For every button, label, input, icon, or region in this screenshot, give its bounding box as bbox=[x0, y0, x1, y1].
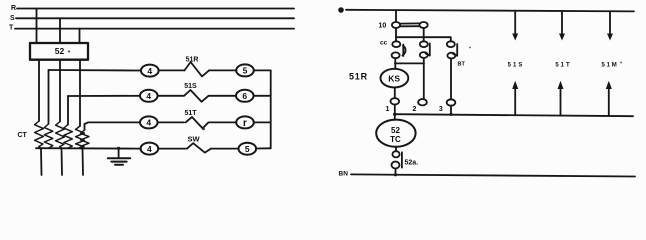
wire row4 to right bus bbox=[256, 147, 271, 149]
svg-text:1: 1 bbox=[386, 106, 390, 113]
terminal 2 circle bbox=[418, 99, 427, 105]
wire phase S below breaker bbox=[59, 60, 61, 122]
mid bus bbox=[395, 114, 633, 116]
svg-text:R: R bbox=[11, 5, 16, 12]
CT zigzag phase T secondary bbox=[81, 130, 90, 148]
wire row3 right of relay bbox=[209, 121, 237, 123]
wire row1 right of relay bbox=[209, 69, 236, 71]
svg-text:51S: 51S bbox=[184, 83, 197, 90]
row 3: wire tap to meter bbox=[85, 122, 141, 124]
junction dot terminal 3 bbox=[449, 113, 452, 116]
ground bar 3 bbox=[115, 164, 123, 166]
svg-text:r: r bbox=[243, 118, 247, 129]
contact CC top terminal bbox=[392, 41, 400, 47]
svg-text:4: 4 bbox=[147, 144, 152, 154]
wire row2 to right bus bbox=[254, 95, 271, 97]
contact CC blade bbox=[403, 45, 406, 57]
CT zigzag phase R secondary bbox=[44, 124, 53, 148]
svg-text:S: S bbox=[10, 15, 15, 22]
wire CT S secondary riser bbox=[67, 96, 69, 125]
feeder 51T up arrowhead bbox=[558, 81, 564, 89]
wire T drop to breaker bbox=[79, 29, 81, 43]
feeder 51M up arrowhead bbox=[606, 81, 612, 89]
terminal 1 circle bbox=[391, 98, 400, 104]
svg-text:BN: BN bbox=[339, 171, 349, 178]
wire common / row4 line bbox=[36, 147, 141, 149]
svg-text:cc: cc bbox=[380, 40, 388, 47]
wire row2 right of relay bbox=[209, 95, 237, 97]
contact 10 right terminal bbox=[420, 22, 428, 28]
CT zigzag phase S secondary bbox=[64, 125, 73, 149]
wire below 10 right bbox=[423, 28, 425, 41]
wire CT T secondary riser bbox=[84, 124, 86, 130]
svg-text:51R: 51R bbox=[186, 57, 199, 64]
wire phase T tail bbox=[82, 148, 85, 175]
svg-text:4: 4 bbox=[146, 91, 151, 101]
terminal circle 5 (row 1) bbox=[236, 64, 254, 76]
wire CT R secondary riser bbox=[48, 70, 50, 124]
svg-text:51S: 51S bbox=[508, 62, 525, 68]
wire CC to KS bbox=[394, 58, 396, 69]
right tie bus vertical bbox=[270, 70, 272, 148]
relay 51N element zigzag bbox=[187, 143, 211, 152]
wire terminal 1 to coil bbox=[394, 105, 396, 120]
wire row2 left of relay bbox=[158, 95, 184, 97]
terminal circle 5 (row 4) bbox=[239, 143, 257, 155]
contact 3 bottom terminal bbox=[447, 53, 455, 59]
contact 10 bridge line upper bbox=[400, 22, 419, 24]
CT zigzag phase T primary bbox=[76, 126, 85, 148]
svg-text:51M: 51M bbox=[601, 62, 618, 68]
wire 52a to BN bbox=[395, 169, 397, 175]
feeder 51S up arrowhead bbox=[512, 81, 518, 89]
svg-text:KS: KS bbox=[388, 73, 400, 83]
wire phase T to common bbox=[80, 147, 81, 150]
svg-text:5: 5 bbox=[245, 144, 250, 154]
wire R drop to breaker bbox=[36, 9, 38, 44]
ink speck after 51M bbox=[620, 62, 622, 64]
wire KS to terminal 1 bbox=[394, 87, 396, 98]
terminal circle r (row 3) bbox=[236, 116, 254, 128]
ground bar 1 bbox=[108, 157, 130, 159]
svg-text:6: 6 bbox=[242, 91, 247, 101]
relay KS circle bbox=[381, 69, 409, 88]
wire branch2 down bbox=[423, 58, 425, 99]
contact 10 left terminal bbox=[392, 22, 400, 28]
row 2: wire tap to meter bbox=[68, 95, 140, 97]
svg-text:SW: SW bbox=[187, 134, 200, 143]
contact 10 bridge line lower bbox=[400, 25, 419, 27]
contact 2 blade bbox=[426, 43, 430, 55]
svg-text:CT: CT bbox=[18, 132, 28, 139]
meter circle 4 (row 3) bbox=[140, 116, 158, 128]
wire terminal 3 to mid bus bbox=[450, 106, 452, 115]
feeder 51T drop arrowhead bbox=[559, 34, 565, 41]
wire phase T below breaker bbox=[79, 60, 81, 126]
coil 52/TC circle bbox=[376, 120, 415, 147]
bus BP bbox=[346, 10, 634, 12]
CT zigzag phase R primary bbox=[35, 121, 44, 147]
feeder 51M drop wire bbox=[609, 11, 611, 34]
feeder 51S up wire bbox=[514, 88, 516, 115]
wire phase R tail bbox=[40, 148, 43, 175]
ground junction dot bbox=[117, 147, 120, 150]
CT zigzag phase S primary bbox=[56, 122, 65, 147]
wire coil to 52a bbox=[395, 147, 397, 151]
svg-text:52: 52 bbox=[391, 126, 400, 135]
feeder 51M up wire bbox=[608, 88, 610, 116]
wire row3 left of relay bbox=[158, 121, 184, 123]
feeder 51S drop arrowhead bbox=[512, 34, 518, 41]
svg-text:51R: 51R bbox=[349, 71, 368, 81]
junction dot coil leg on BN bbox=[394, 173, 397, 176]
bus R bbox=[17, 8, 294, 10]
relay 51S element zigzag bbox=[184, 90, 209, 102]
svg-text:52: 52 bbox=[55, 46, 65, 56]
breaker 52 box bbox=[30, 43, 88, 60]
wire row1 to right bus bbox=[254, 69, 271, 71]
wire row1 left of relay bbox=[159, 69, 185, 71]
svg-text:51T: 51T bbox=[184, 110, 197, 117]
contact 2 top terminal bbox=[420, 41, 428, 47]
ink speck right of 52 box bbox=[68, 51, 70, 53]
wire S drop to breaker bbox=[59, 18, 61, 43]
svg-text:2: 2 bbox=[413, 106, 417, 113]
wire tie to branch 3 bbox=[396, 37, 451, 41]
wire main drop from BP bbox=[395, 10, 397, 22]
feeder 51S drop wire bbox=[514, 11, 516, 34]
relay 51R element zigzag bbox=[185, 62, 210, 76]
contact 3 top terminal bbox=[447, 41, 455, 47]
wire branch3 down bbox=[450, 59, 452, 100]
ink speck near SW row bbox=[202, 128, 205, 131]
contact CC bottom terminal bbox=[392, 52, 400, 58]
terminal circle 6 (row 2) bbox=[236, 90, 254, 102]
wire phase S tail bbox=[61, 148, 64, 175]
wire tie branch1-branch2 bbox=[395, 62, 424, 64]
feeder 51M drop arrowhead bbox=[607, 34, 613, 41]
wire below 10 left bbox=[395, 28, 397, 41]
bus BP start dot bbox=[338, 7, 344, 13]
meter circle 4 (row 1) bbox=[141, 65, 159, 77]
terminal 3 circle bbox=[447, 99, 456, 105]
svg-text:52a.: 52a. bbox=[405, 160, 419, 167]
row 4: meter circle 4 bbox=[141, 143, 159, 155]
svg-text:4: 4 bbox=[146, 118, 151, 128]
contact 52a blade bar bbox=[401, 152, 403, 167]
wire phase R to common bbox=[39, 147, 40, 149]
contact 2 bottom terminal bbox=[420, 52, 428, 58]
wire phase R below breaker bbox=[38, 60, 40, 121]
ink speck below contact 3 bbox=[469, 47, 471, 49]
svg-text:T: T bbox=[9, 25, 14, 32]
wire phase S to common bbox=[60, 147, 61, 149]
ground riser bbox=[118, 148, 120, 158]
svg-text:TC: TC bbox=[390, 135, 401, 144]
feeder 51T drop wire bbox=[561, 11, 563, 34]
feeder 51T up wire bbox=[560, 88, 562, 116]
svg-text:10: 10 bbox=[379, 23, 387, 30]
bus S bbox=[16, 17, 294, 19]
bus BN bbox=[351, 174, 635, 176]
row 1: wire tap to meter bbox=[49, 69, 141, 72]
contact 52a top terminal bbox=[392, 151, 399, 157]
svg-text:BT: BT bbox=[458, 61, 466, 67]
contact 3 blade bbox=[453, 44, 457, 56]
contact 52a bottom terminal bbox=[392, 162, 400, 169]
meter circle 4 (row 2) bbox=[140, 90, 158, 102]
svg-text:4: 4 bbox=[147, 66, 152, 76]
bus T bbox=[15, 28, 294, 30]
wire row4 left of relay bbox=[158, 148, 187, 150]
wire row3 to right bus bbox=[254, 121, 271, 123]
svg-text:51T: 51T bbox=[555, 62, 571, 68]
ground bar 2 bbox=[111, 161, 126, 163]
wire row4 right of relay bbox=[211, 148, 239, 150]
svg-text:3: 3 bbox=[439, 106, 443, 113]
junction dot mid bus start bbox=[393, 113, 396, 116]
svg-text:5: 5 bbox=[243, 66, 248, 76]
relay 51T element zigzag bbox=[186, 117, 209, 128]
